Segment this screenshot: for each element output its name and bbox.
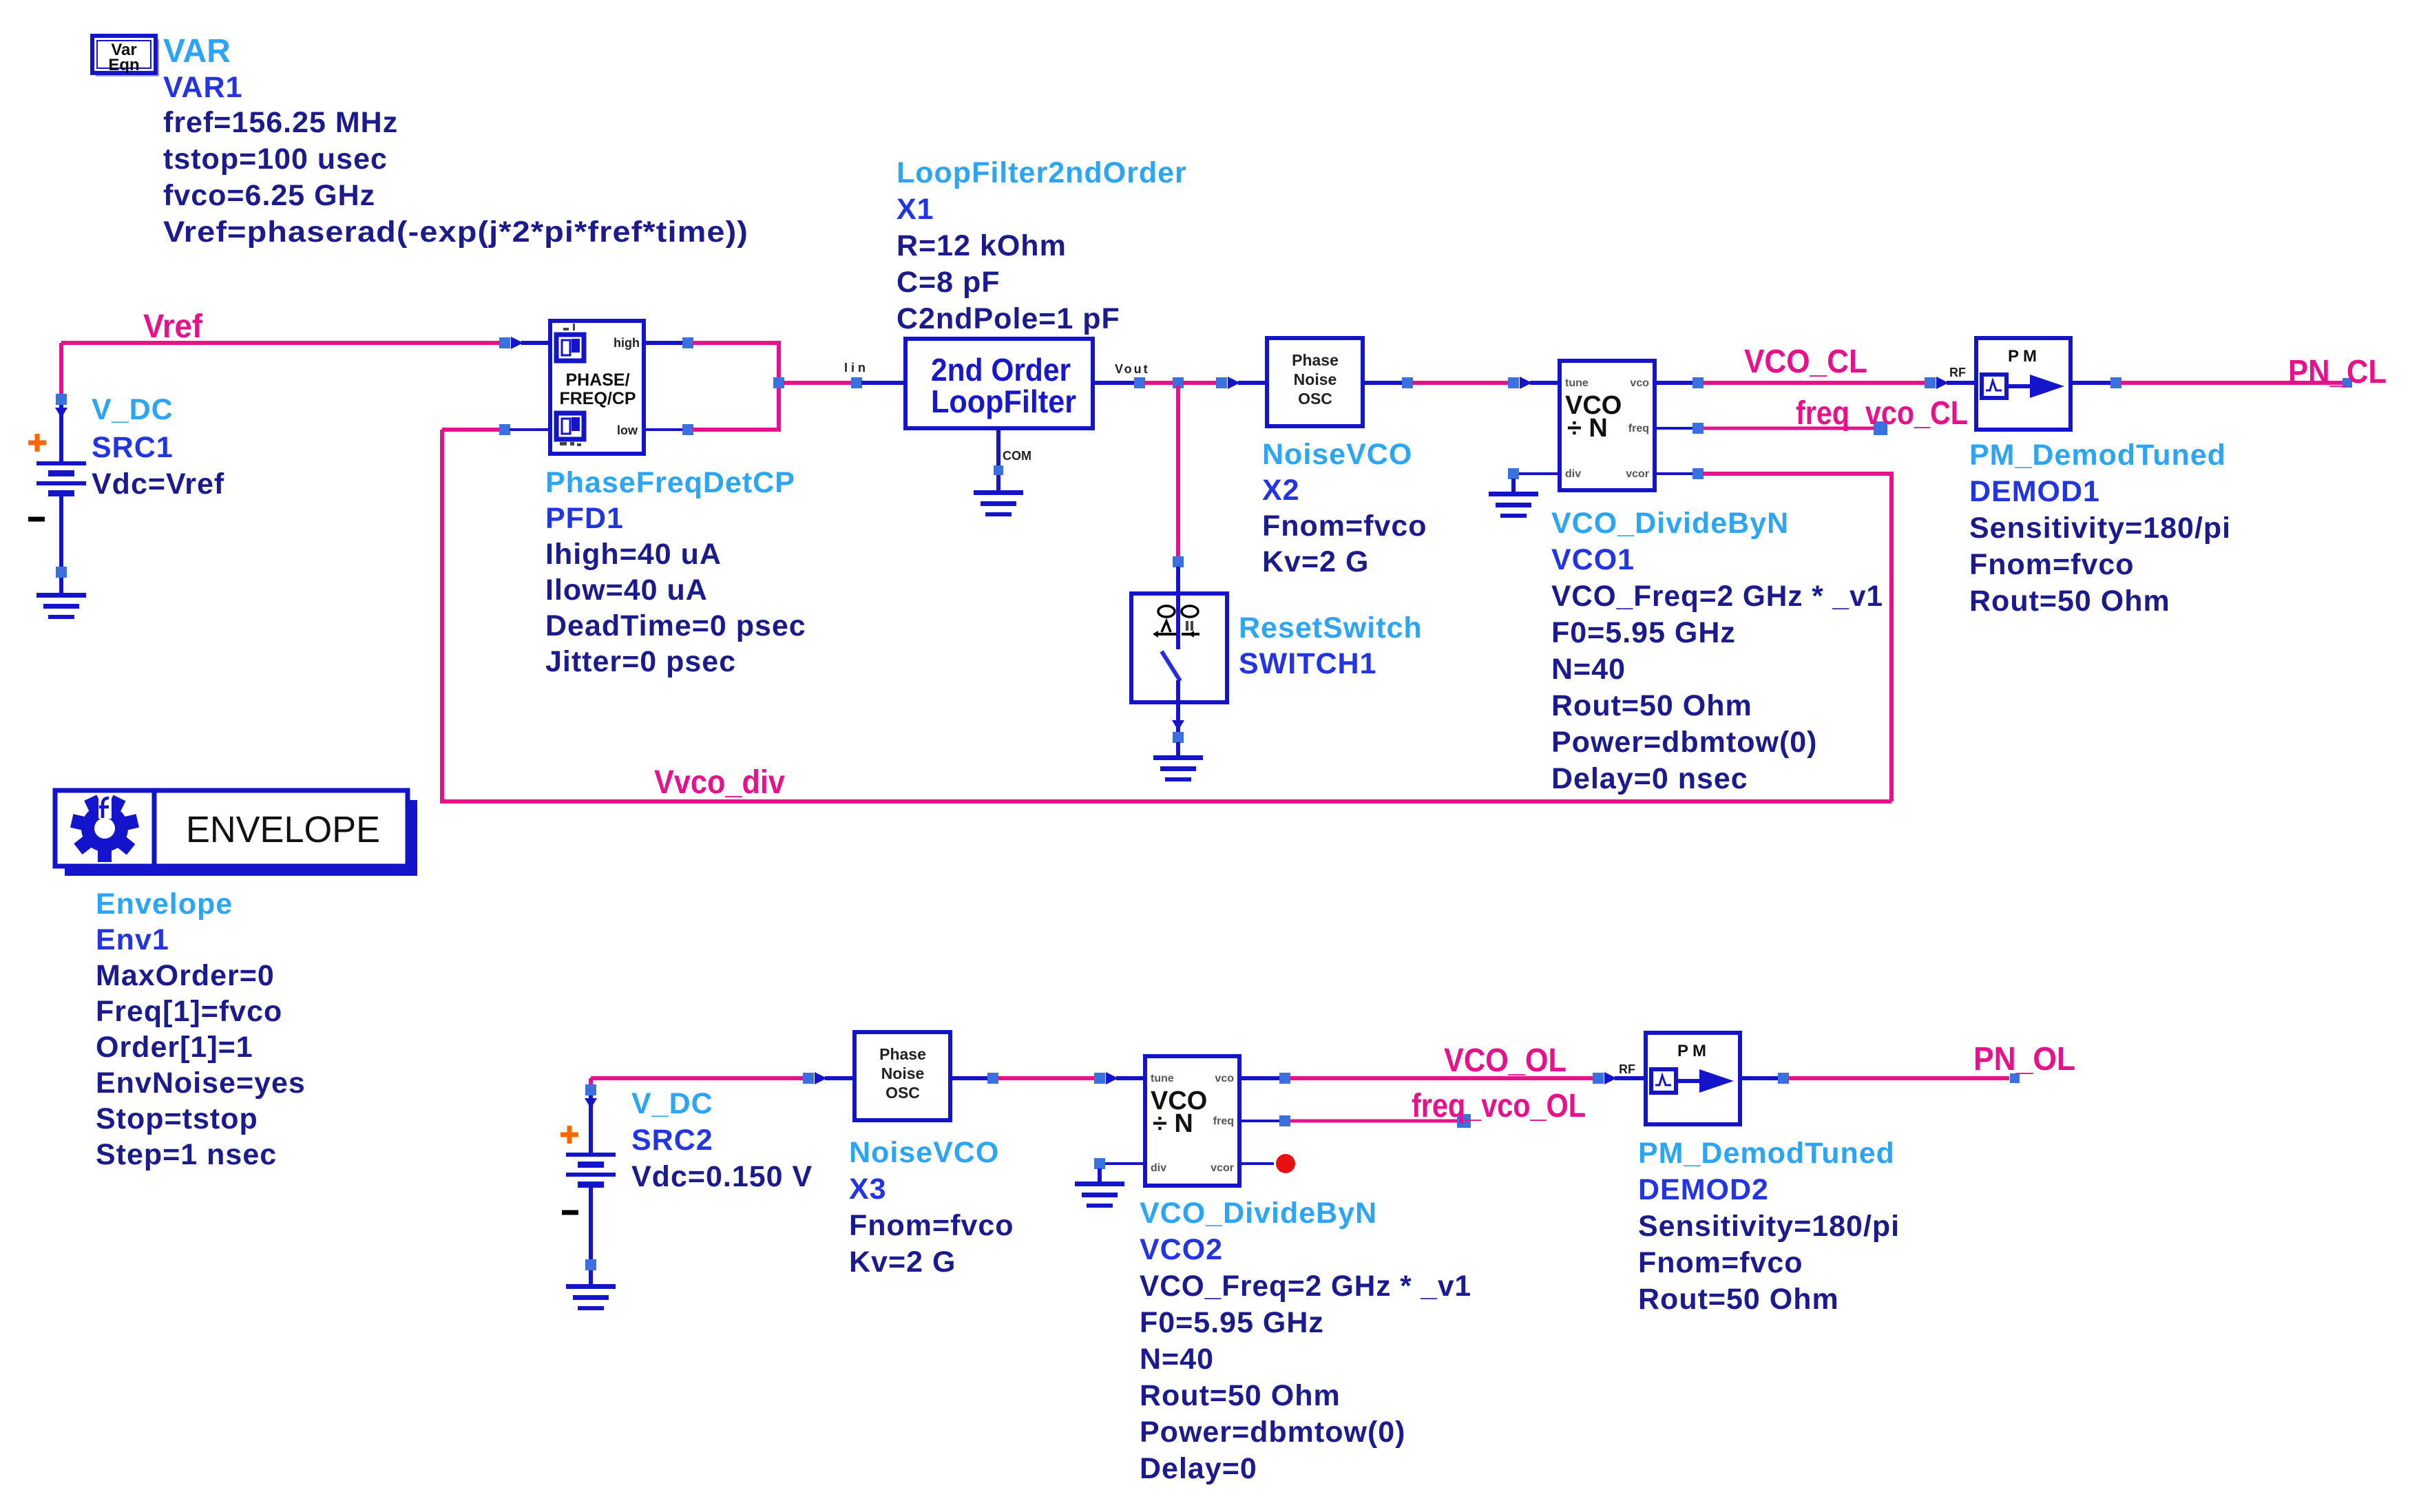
svg-text:R=12 kOhm: R=12 kOhm xyxy=(897,229,1067,262)
DEMOD2 instance label xyxy=(1638,1173,1769,1206)
NoiseVCO X3 label xyxy=(849,1136,999,1169)
wire PFD low pink right xyxy=(693,428,781,432)
svg-text:Envelope: Envelope xyxy=(96,888,233,921)
svg-text:Power=dbmtow(0): Power=dbmtow(0) xyxy=(1551,726,1818,759)
DEMOD1 param Sensitivity xyxy=(1969,512,2231,545)
VCO2 box xyxy=(1145,1056,1239,1186)
junction NoiseVCO X3 input xyxy=(803,1073,814,1084)
svg-text:RF: RF xyxy=(1619,1062,1635,1076)
junction VCO1 div xyxy=(1508,468,1519,479)
svg-text:PhaseFreqDetCP: PhaseFreqDetCP xyxy=(545,466,795,499)
ground loop filter COM xyxy=(974,490,1023,516)
svg-text:PM_DemodTuned: PM_DemodTuned xyxy=(1969,439,2226,472)
junction battery1 plus xyxy=(56,394,67,405)
wire VCO2 vcor stub xyxy=(1239,1162,1274,1165)
wire PFD low left pink xyxy=(442,428,500,432)
DEMOD2 box xyxy=(1646,1033,1740,1124)
junction DEMOD1 input xyxy=(1925,377,1936,388)
DEMOD1 icon xyxy=(1982,375,2064,398)
svg-text:DeadTime=0 psec: DeadTime=0 psec xyxy=(545,609,806,642)
wire VCO2 div stub xyxy=(1100,1162,1145,1165)
X1 param C2ndPole xyxy=(897,302,1120,335)
svg-text:tune: tune xyxy=(1151,1073,1174,1084)
NoiseVCO X2 box xyxy=(1267,338,1363,426)
node freq_vco_OL end xyxy=(1457,1114,1471,1128)
wire battery2 plus stub xyxy=(589,1095,593,1153)
PFD1 instance label xyxy=(545,502,624,535)
VCO2 pin label freq xyxy=(1213,1115,1234,1127)
junction X3 out xyxy=(987,1073,998,1084)
svg-text:VCO_CL: VCO_CL xyxy=(1744,344,1867,380)
node freq_vco_OL label xyxy=(1412,1088,1586,1124)
junction X2 out xyxy=(1402,377,1413,388)
wire into PFD ref pin xyxy=(521,341,550,345)
VCO1 inner text divide N xyxy=(1567,414,1608,443)
junction switch top xyxy=(1173,556,1184,567)
V_DC SRC2 label xyxy=(631,1087,713,1120)
svg-text:PM_DemodTuned: PM_DemodTuned xyxy=(1638,1137,1895,1170)
DEMOD2 param Sensitivity xyxy=(1638,1210,1900,1243)
svg-text:freq: freq xyxy=(1213,1115,1234,1127)
junction switch bottom xyxy=(1173,732,1184,743)
wire into VCO1 tune xyxy=(1530,381,1560,385)
svg-text:PM: PM xyxy=(2008,347,2041,366)
VCO1 instance label xyxy=(1551,543,1635,576)
arrow into NoiseVCO X3 xyxy=(815,1072,827,1084)
svg-text:EnvNoise=yes: EnvNoise=yes xyxy=(96,1067,306,1100)
svg-text:Order[1]=1: Order[1]=1 xyxy=(96,1031,253,1064)
wire PFD low-left blue stub xyxy=(510,428,550,431)
ENVELOPE title text xyxy=(186,809,380,850)
svg-text:Ilow=40 uA: Ilow=40 uA xyxy=(545,574,708,607)
PFD1 icon top tiny label xyxy=(563,324,575,330)
Env1 param Freq[1] xyxy=(96,995,282,1028)
junction PFD low-left xyxy=(499,424,510,435)
Env1 param Step xyxy=(96,1138,277,1171)
wire VCO1 vcor stub xyxy=(1655,472,1693,475)
svg-text:freq_vco_OL: freq_vco_OL xyxy=(1412,1088,1586,1124)
wire battery1 plus stub xyxy=(59,405,63,461)
VCO2 param Rout xyxy=(1140,1379,1341,1412)
wire COM stub xyxy=(996,428,1000,467)
svg-text:Rout=50 Ohm: Rout=50 Ohm xyxy=(1551,689,1752,722)
PFD1 icon bottom xyxy=(556,413,584,439)
node PN_OL label xyxy=(1973,1041,2075,1078)
svg-text:÷ N: ÷ N xyxy=(1153,1109,1193,1138)
svg-text:ResetSwitch: ResetSwitch xyxy=(1239,611,1423,644)
junction VCO2 tune input xyxy=(1094,1073,1105,1084)
svg-text:Vvco_div: Vvco_div xyxy=(654,764,785,801)
svg-text:Step=1 nsec: Step=1 nsec xyxy=(96,1138,277,1171)
node Vref label xyxy=(143,308,203,345)
VCO1 pin label div xyxy=(1565,468,1581,480)
VCO1 param N xyxy=(1551,653,1626,686)
wire VCO_CL pink xyxy=(1703,381,1925,385)
VCO1 pin label vcor xyxy=(1626,468,1649,480)
junction VCO2 vco out xyxy=(1279,1073,1290,1084)
svg-text:VCO2: VCO2 xyxy=(1140,1233,1223,1266)
PFD1 pin label high xyxy=(614,336,640,350)
X2 param Kv xyxy=(1262,545,1369,578)
switch lever xyxy=(1162,651,1180,681)
svg-text:tstop=100 usec: tstop=100 usec xyxy=(163,143,388,176)
wire VCO_OL pink xyxy=(1290,1076,1593,1080)
junction loop T xyxy=(1173,377,1184,388)
svg-text:C2ndPole=1 pF: C2ndPole=1 pF xyxy=(897,302,1120,335)
svg-text:LoopFilter: LoopFilter xyxy=(931,384,1076,419)
wire Vref horizontal xyxy=(61,341,500,345)
svg-text:Fnom=fvco: Fnom=fvco xyxy=(1969,548,2135,581)
pin label Iin xyxy=(844,361,869,375)
wire X2 to VCO pink xyxy=(1412,381,1509,385)
wire battery2 minus stub xyxy=(589,1188,593,1263)
wire battery1 top xyxy=(59,343,63,396)
wire SRC2 top riser xyxy=(589,1078,593,1086)
ground SRC1 xyxy=(36,593,86,619)
svg-text:freq_vco_CL: freq_vco_CL xyxy=(1796,395,1968,432)
X3 instance label xyxy=(849,1173,887,1206)
plus sign SRC1 xyxy=(28,434,46,452)
wire VCO1 div to ground xyxy=(1511,479,1516,492)
X3 param Kv xyxy=(849,1246,956,1279)
switch icon circles xyxy=(1158,606,1198,617)
svg-text:Sensitivity=180/pi: Sensitivity=180/pi xyxy=(1969,512,2231,545)
VCO2 instance label xyxy=(1140,1233,1223,1266)
arrow into VCO1 tune xyxy=(1520,377,1532,389)
wire X3 to VCO2 pink xyxy=(998,1076,1095,1080)
arrow switch output xyxy=(1172,720,1184,731)
VCO2 pin label vcor xyxy=(1210,1162,1234,1174)
junction COM xyxy=(994,465,1003,475)
svg-text:vcor: vcor xyxy=(1626,468,1649,480)
VCO2 param VCO_Freq xyxy=(1140,1270,1471,1303)
wire T to noise pink xyxy=(1183,381,1217,385)
wire VCO2 freq stub xyxy=(1239,1120,1280,1122)
svg-text:DEMOD1: DEMOD1 xyxy=(1969,475,2100,508)
ENVELOPE block shadow xyxy=(65,800,417,876)
wire Vvco_div vertical right xyxy=(1889,474,1894,801)
wire freq_vco_CL pink xyxy=(1703,427,1875,430)
VCO1 inner text VCO xyxy=(1565,391,1622,420)
svg-text:÷ N: ÷ N xyxy=(1567,414,1608,443)
svg-text:Env1: Env1 xyxy=(96,923,169,956)
svg-text:ENVELOPE: ENVELOPE xyxy=(186,809,380,850)
DEMOD2 param Fnom xyxy=(1638,1246,1803,1279)
svg-text:Ihigh=40 uA: Ihigh=40 uA xyxy=(545,538,722,571)
svg-text:Noise: Noise xyxy=(1294,370,1337,388)
svg-text:PHASE/: PHASE/ xyxy=(565,370,629,390)
switch icon left glyph xyxy=(1153,621,1176,638)
ENVELOPE block box xyxy=(55,790,408,866)
svg-text:N=40: N=40 xyxy=(1551,653,1626,686)
junction PFD high xyxy=(682,337,693,348)
svg-text:NoiseVCO: NoiseVCO xyxy=(1262,438,1412,471)
svg-text:Phase: Phase xyxy=(879,1045,926,1063)
junction battery2 plus xyxy=(585,1084,596,1095)
loop filter text LoopFilter xyxy=(931,384,1076,419)
svg-text:Vdc=0.150 V: Vdc=0.150 V xyxy=(631,1160,813,1193)
junction VCO1 vco out xyxy=(1692,377,1704,388)
svg-text:V_DC: V_DC xyxy=(631,1087,713,1120)
X2 instance label xyxy=(1262,474,1300,507)
svg-text:Iin: Iin xyxy=(844,361,869,375)
junction DEMOD2 out xyxy=(1778,1073,1789,1084)
DEMOD1 param Fnom xyxy=(1969,548,2135,581)
NoiseVCO label xyxy=(1262,438,1412,471)
svg-text:NoiseVCO: NoiseVCO xyxy=(849,1136,999,1169)
svg-text:Freq[1]=fvco: Freq[1]=fvco xyxy=(96,995,282,1028)
svg-text:DEMOD2: DEMOD2 xyxy=(1638,1173,1769,1206)
VAR param fref xyxy=(163,106,398,139)
arrow into DEMOD2 RF xyxy=(1604,1072,1617,1084)
DEMOD1 param Rout xyxy=(1969,585,2170,618)
VCO1 pin label freq xyxy=(1628,423,1649,434)
wire battery1 minus stub xyxy=(59,496,63,570)
VCO2 inner text VCO xyxy=(1151,1086,1207,1115)
svg-text:PFD1: PFD1 xyxy=(545,502,624,535)
svg-text:Delay=0 nsec: Delay=0 nsec xyxy=(1551,762,1748,795)
svg-text:LoopFilter2ndOrder: LoopFilter2ndOrder xyxy=(897,156,1187,189)
node PN_OL end xyxy=(2010,1073,2020,1083)
VCO1 param VCO_Freq xyxy=(1551,580,1883,613)
svg-text:Vref: Vref xyxy=(143,308,203,345)
svg-text:tune: tune xyxy=(1565,377,1589,389)
junction VCO tune input xyxy=(1508,377,1519,388)
minus sign SRC1 xyxy=(28,517,45,522)
V_DC SRC1 battery symbol xyxy=(36,461,86,496)
ResetSwitch label xyxy=(1239,611,1423,644)
NoiseVCO X3 box xyxy=(855,1032,950,1120)
junction filter out xyxy=(1134,377,1145,388)
VAR equation block icon (Var Eqn) xyxy=(92,36,159,76)
DEMOD2 icon xyxy=(1651,1069,1734,1093)
ground VCO1 xyxy=(1489,492,1538,518)
wire DEMOD1 out stub xyxy=(2071,381,2111,385)
minus sign SRC2 xyxy=(562,1210,578,1215)
loop filter X1 box xyxy=(905,339,1093,428)
arrow into PFD ref pin xyxy=(511,337,523,349)
wire PFD high pink right xyxy=(693,341,781,345)
loop filter text 2nd Order xyxy=(931,352,1071,388)
pin label COM xyxy=(1003,449,1031,463)
svg-text:high: high xyxy=(614,336,640,350)
VCO2 pin label div xyxy=(1151,1162,1166,1174)
switch icon right glyph xyxy=(1182,621,1199,638)
wire into NoiseVCO xyxy=(1238,381,1267,385)
VAR param tstop xyxy=(163,143,388,176)
NoiseVCO X2 inner text xyxy=(1292,351,1339,408)
junction at PFD ref input xyxy=(499,337,510,348)
wire vcor to feedback pink xyxy=(1703,472,1894,476)
VCO2 param Delay xyxy=(1140,1452,1257,1485)
DEMOD1 instance label xyxy=(1969,475,2100,508)
switch wire inside top xyxy=(1176,594,1180,649)
node Vvco_div label xyxy=(654,764,785,801)
ground SWITCH1 xyxy=(1153,755,1203,781)
svg-text:Phase: Phase xyxy=(1292,351,1339,369)
VCO2 param N xyxy=(1140,1343,1214,1376)
wire switch top stub xyxy=(1176,567,1180,594)
junction VCO2 freq xyxy=(1279,1115,1290,1126)
wire VCO1 vco out stub xyxy=(1655,381,1693,385)
VCO_DivideByN label xyxy=(1551,507,1789,540)
wire DEMOD2 out stub xyxy=(1740,1076,1779,1080)
wire Vvco_div horizontal xyxy=(442,799,1891,804)
svg-text:Delay=0: Delay=0 xyxy=(1140,1452,1257,1485)
svg-text:X2: X2 xyxy=(1262,474,1300,507)
X1 param R xyxy=(897,229,1067,262)
VCO_DivideByN VCO2 label xyxy=(1140,1197,1377,1230)
junction DEMOD2 input xyxy=(1593,1073,1604,1084)
svg-text:OSC: OSC xyxy=(885,1084,920,1102)
VCO1 param Rout xyxy=(1551,689,1752,722)
wire X2 out stub xyxy=(1363,381,1403,385)
svg-text:SRC2: SRC2 xyxy=(631,1124,713,1157)
V_DC SRC2 battery symbol xyxy=(566,1153,616,1188)
wire VCO1 freq stub xyxy=(1655,427,1693,430)
arrow into DEMOD1 RF xyxy=(1936,377,1949,389)
wire into DEMOD1 RF xyxy=(1947,381,1976,385)
Env1 instance label xyxy=(96,923,169,956)
svg-text:X1: X1 xyxy=(897,193,934,226)
wire into filter Iin xyxy=(861,381,905,385)
svg-text:VAR1: VAR1 xyxy=(163,71,243,104)
svg-text:Eqn: Eqn xyxy=(108,56,139,74)
svg-text:Vdc=Vref: Vdc=Vref xyxy=(92,468,224,501)
svg-text:Stop=tstop: Stop=tstop xyxy=(96,1102,258,1135)
svg-text:VCO_DivideByN: VCO_DivideByN xyxy=(1551,507,1789,540)
PFD1 text FREQ/CP xyxy=(559,389,636,408)
PFD1 param Ilow xyxy=(545,574,708,607)
V_DC label xyxy=(92,393,174,426)
wire VCO2 div to ground xyxy=(1098,1168,1102,1182)
svg-text:FREQ/CP: FREQ/CP xyxy=(559,389,636,408)
wire into DEMOD2 RF xyxy=(1615,1076,1646,1080)
wire CP outputs vertical join xyxy=(777,343,781,430)
PFD1 icon bottom tiny label xyxy=(560,442,581,446)
PFD1 param DeadTime xyxy=(545,609,806,642)
SRC1 Vdc param xyxy=(92,468,224,501)
svg-text:Noise: Noise xyxy=(881,1064,925,1082)
wire SRC2 to NoiseVCO pink xyxy=(591,1076,804,1080)
PFD1 icon top xyxy=(556,335,584,361)
DEMOD2 param Rout xyxy=(1638,1283,1839,1316)
svg-text:COM: COM xyxy=(1003,449,1031,463)
junction filter input xyxy=(851,377,862,388)
VCO1 pin label tune xyxy=(1565,377,1589,389)
wire battery1 to ground xyxy=(59,578,63,593)
ground VCO2 xyxy=(1075,1182,1124,1208)
DEMOD1 box xyxy=(1976,338,2071,430)
VCO2 param Power xyxy=(1140,1416,1406,1449)
svg-text:vcor: vcor xyxy=(1210,1162,1234,1174)
arrow battery2 plus xyxy=(585,1098,597,1109)
junction noise input xyxy=(1216,377,1227,388)
svg-text:Fnom=fvco: Fnom=fvco xyxy=(849,1209,1014,1242)
svg-text:VCO_Freq=2 GHz * _v1: VCO_Freq=2 GHz * _v1 xyxy=(1551,580,1883,613)
Envelope label xyxy=(96,888,233,921)
SWITCH1 box xyxy=(1131,594,1227,702)
VAR instance VAR1 xyxy=(163,71,243,104)
wire into VCO2 tune xyxy=(1116,1076,1145,1080)
svg-text:Fnom=fvco: Fnom=fvco xyxy=(1262,510,1427,543)
node VCO2 vcor open (red) xyxy=(1276,1154,1295,1173)
SRC2 instance label xyxy=(631,1124,713,1157)
wire PN_OL pink xyxy=(1788,1076,2009,1080)
Env1 param Stop xyxy=(96,1102,258,1135)
svg-text:Sensitivity=180/pi: Sensitivity=180/pi xyxy=(1638,1210,1900,1243)
junction PFD low xyxy=(682,424,693,435)
svg-text:C=8 pF: C=8 pF xyxy=(897,266,1000,299)
junction VCO1 freq xyxy=(1692,423,1704,434)
arrow into NoiseVCO xyxy=(1228,377,1240,389)
svg-text:Power=dbmtow(0): Power=dbmtow(0) xyxy=(1140,1416,1406,1449)
VCO1 param F0 xyxy=(1551,616,1736,649)
wire switch bottom stub xyxy=(1176,702,1180,734)
Env1 param EnvNoise xyxy=(96,1067,306,1100)
svg-text:VCO_Freq=2 GHz * _v1: VCO_Freq=2 GHz * _v1 xyxy=(1140,1270,1471,1303)
SWITCH1 instance label xyxy=(1239,647,1377,680)
X1 instance label xyxy=(897,193,934,226)
PFD1 pin label low xyxy=(617,423,638,437)
svg-text:vco: vco xyxy=(1630,377,1649,389)
SRC1 label xyxy=(92,431,174,464)
PFD1 box xyxy=(550,321,644,454)
svg-text:SRC1: SRC1 xyxy=(92,431,174,464)
VCO2 pin label tune xyxy=(1151,1073,1174,1084)
junction VCO1 vcor xyxy=(1692,468,1704,479)
VCO1 param Delay xyxy=(1551,762,1748,795)
svg-text:RF: RF xyxy=(1949,366,1966,379)
node freq_vco_CL end xyxy=(1874,421,1887,435)
svg-text:MaxOrder=0: MaxOrder=0 xyxy=(96,959,275,992)
wire VCO2 vco out stub xyxy=(1239,1076,1280,1080)
node PN_CL label xyxy=(2288,354,2387,390)
svg-text:PN_OL: PN_OL xyxy=(1973,1041,2075,1078)
svg-text:Rout=50 Ohm: Rout=50 Ohm xyxy=(1140,1379,1341,1412)
node PN_CL end xyxy=(2343,378,2352,388)
X3 param Fnom xyxy=(849,1209,1014,1242)
plus sign SRC2 xyxy=(560,1126,578,1144)
wire filter out to switch pink xyxy=(1176,386,1180,558)
VCO2 pin label vco xyxy=(1215,1073,1234,1084)
X2 param Fnom xyxy=(1262,510,1427,543)
wire CP to filter pink xyxy=(784,381,857,385)
wire PFD high stub xyxy=(644,341,683,345)
VCO1 param Power xyxy=(1551,726,1818,759)
DEMOD1 text PM xyxy=(2008,347,2041,366)
wire switch to ground xyxy=(1176,742,1180,755)
svg-text:N=40: N=40 xyxy=(1140,1343,1214,1376)
arrow into VCO2 tune xyxy=(1106,1072,1118,1084)
svg-text:Rout=50 Ohm: Rout=50 Ohm xyxy=(1638,1283,1839,1316)
svg-text:SWITCH1: SWITCH1 xyxy=(1239,647,1377,680)
wire freq_vco_OL pink xyxy=(1290,1120,1458,1123)
svg-text:2nd Order: 2nd Order xyxy=(931,352,1071,388)
wire Vvco_div vertical left xyxy=(440,430,444,804)
VAR param fvco xyxy=(163,179,375,212)
wire PFD low stub xyxy=(644,428,683,431)
svg-text:Vout: Vout xyxy=(1115,362,1150,376)
PFD1 param Jitter xyxy=(545,645,736,678)
wire VCO1 div stub xyxy=(1513,472,1560,475)
svg-text:PM: PM xyxy=(1677,1042,1710,1060)
ENVELOPE gear icon xyxy=(70,795,139,862)
wire battery2 to ground xyxy=(589,1270,593,1284)
node freq_vco_CL label xyxy=(1796,395,1968,432)
pin label RF DEMOD1 xyxy=(1949,366,1966,379)
X1 param C xyxy=(897,266,1000,299)
